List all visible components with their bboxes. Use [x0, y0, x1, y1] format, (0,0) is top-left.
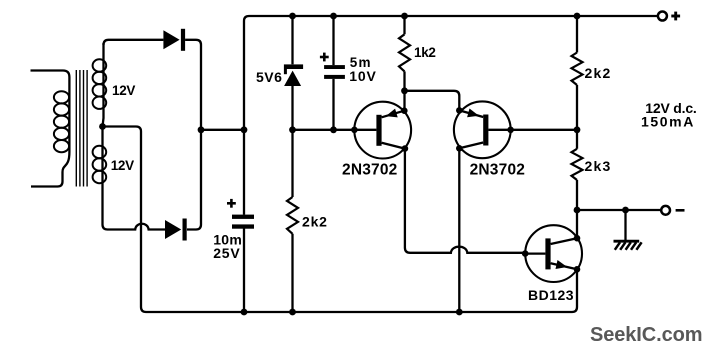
svg-text:2N3702: 2N3702	[342, 162, 398, 179]
svg-text:12V: 12V	[111, 158, 134, 173]
svg-text:BD123: BD123	[528, 287, 574, 303]
svg-text:2k3: 2k3	[585, 158, 612, 174]
svg-text:1k2: 1k2	[414, 45, 436, 60]
svg-text:5V6: 5V6	[256, 69, 282, 85]
svg-text:2k2: 2k2	[585, 65, 612, 81]
svg-text:150mA: 150mA	[641, 114, 695, 130]
svg-text:25V: 25V	[213, 245, 240, 261]
svg-text:2k2: 2k2	[302, 214, 328, 230]
svg-text:10V: 10V	[349, 68, 376, 84]
svg-text:12V: 12V	[112, 83, 135, 98]
svg-text:2N3702: 2N3702	[470, 162, 525, 179]
svg-text:SeekIC.com: SeekIC.com	[590, 324, 702, 346]
